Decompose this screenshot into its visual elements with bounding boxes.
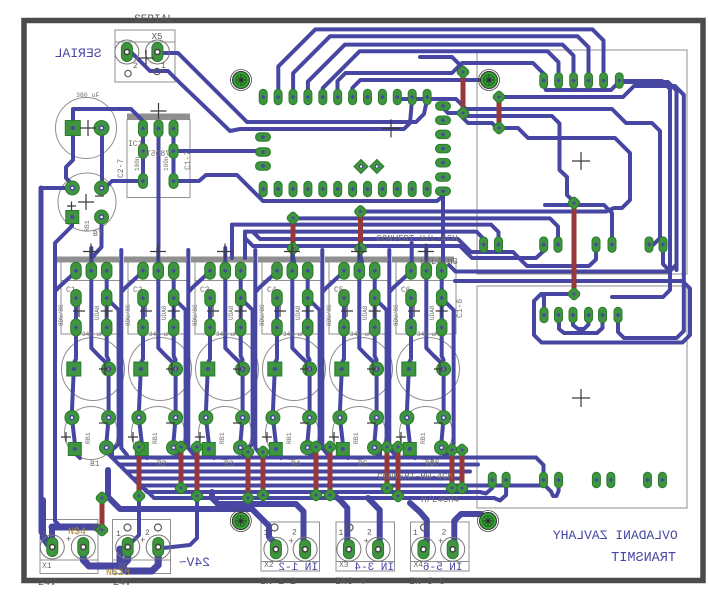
svg-text:B6: B6	[430, 459, 440, 468]
svg-text:B1: B1	[90, 460, 100, 469]
svg-text:340 uF: 340 uF	[82, 331, 104, 338]
svg-text:IN 1-2: IN 1-2	[260, 577, 296, 588]
svg-text:CONVERT-H/L-4CH: CONVERT-H/L-4CH	[376, 234, 457, 244]
svg-text:C1-7: C1-7	[184, 151, 193, 170]
svg-text:B3: B3	[224, 460, 234, 469]
svg-text:H/L4CH3: H/L4CH3	[420, 257, 458, 267]
svg-text:340 uF: 340 uF	[350, 331, 372, 338]
svg-text:RB1: RB1	[286, 432, 293, 444]
svg-text:RB1: RB1	[219, 432, 226, 444]
svg-text:IN 5-6: IN 5-6	[409, 577, 445, 588]
svg-text:X3: X3	[339, 561, 349, 570]
svg-text:X2: X2	[264, 561, 274, 570]
svg-text:B2: B2	[157, 460, 167, 469]
svg-text:RB1: RB1	[85, 432, 92, 444]
svg-text:8DU/8S: 8DU/8S	[192, 304, 199, 326]
svg-text:24V ~: 24V ~	[38, 578, 68, 589]
svg-text:2: 2	[145, 529, 150, 538]
svg-text:N$4: N$4	[68, 526, 86, 538]
svg-text:1: 1	[116, 530, 121, 539]
svg-text:SERIAL: SERIAL	[55, 46, 102, 61]
svg-text:340 uF: 340 uF	[149, 331, 171, 338]
svg-text:UDA8: UDA8	[362, 305, 369, 320]
svg-text:340 uF: 340 uF	[216, 331, 238, 338]
svg-text:+: +	[140, 536, 145, 546]
svg-text:8DU/8S: 8DU/8S	[58, 304, 65, 326]
svg-text:1: 1	[41, 530, 46, 539]
svg-text:C2-7: C2-7	[117, 159, 126, 178]
svg-text:8DU/8S: 8DU/8S	[326, 304, 333, 326]
svg-text:C6: C6	[401, 286, 411, 295]
svg-text:24V~: 24V~	[179, 555, 210, 570]
svg-text:IN3-4: IN3-4	[335, 577, 365, 588]
svg-text:UDA8: UDA8	[161, 305, 168, 320]
svg-text:+: +	[289, 537, 294, 547]
svg-text:24V ~: 24V ~	[113, 578, 143, 589]
svg-text:IN 5-6: IN 5-6	[423, 562, 463, 574]
svg-text:1: 1	[264, 529, 269, 538]
svg-text:X1: X1	[42, 562, 52, 571]
svg-text:C2: C2	[133, 286, 143, 295]
svg-text:UDA8: UDA8	[228, 305, 235, 320]
svg-text:1: 1	[161, 62, 166, 71]
svg-text:340 uF: 340 uF	[417, 331, 439, 338]
svg-text:380 uF: 380 uF	[76, 92, 100, 99]
svg-text:SERIAL: SERIAL	[134, 14, 174, 26]
svg-text:H/L4CH4: H/L4CH4	[421, 495, 459, 505]
svg-text:IC1: IC1	[128, 140, 143, 149]
svg-text:C1-6: C1-6	[456, 299, 465, 318]
svg-text:+: +	[364, 537, 369, 547]
svg-text:8DU/8S: 8DU/8S	[125, 304, 132, 326]
svg-text:RB1: RB1	[152, 432, 159, 444]
svg-text:OVLADANI ZAVLAHY: OVLADANI ZAVLAHY	[553, 528, 678, 543]
svg-text:+: +	[438, 537, 443, 547]
svg-text:C1: C1	[66, 286, 76, 295]
svg-text:B7: B7	[93, 230, 103, 239]
svg-text:B5: B5	[358, 460, 368, 469]
svg-text:100n: 100n	[163, 156, 170, 171]
svg-text:UDA8: UDA8	[94, 305, 101, 320]
svg-text:N$28: N$28	[106, 567, 130, 579]
svg-text:1: 1	[339, 529, 344, 538]
svg-text:2: 2	[133, 62, 138, 71]
svg-text:B4: B4	[291, 460, 301, 469]
svg-text:UDA8: UDA8	[429, 305, 436, 320]
svg-text:IN 1-2: IN 1-2	[278, 562, 318, 574]
svg-text:C5: C5	[334, 286, 344, 295]
svg-text:8DU/8S: 8DU/8S	[259, 304, 266, 326]
svg-text:RB1: RB1	[353, 432, 360, 444]
svg-text:C3: C3	[200, 286, 210, 295]
svg-text:1: 1	[413, 529, 418, 538]
svg-text:C4: C4	[267, 286, 277, 295]
svg-text:TRANSMIT: TRANSMIT	[611, 551, 676, 566]
svg-text:IN 3-4: IN 3-4	[354, 562, 394, 574]
svg-text:UDA8: UDA8	[295, 305, 302, 320]
svg-text:RB1: RB1	[420, 432, 427, 444]
svg-text:CONVERT-HW-4CH: CONVERT-HW-4CH	[377, 472, 453, 482]
svg-text:100n: 100n	[134, 156, 141, 171]
svg-text:X5: X5	[152, 32, 163, 42]
svg-text:RB1: RB1	[84, 220, 91, 232]
svg-text:X4: X4	[414, 561, 424, 570]
svg-text:340 uF: 340 uF	[283, 331, 305, 338]
svg-text:8DU/8S: 8DU/8S	[393, 304, 400, 326]
